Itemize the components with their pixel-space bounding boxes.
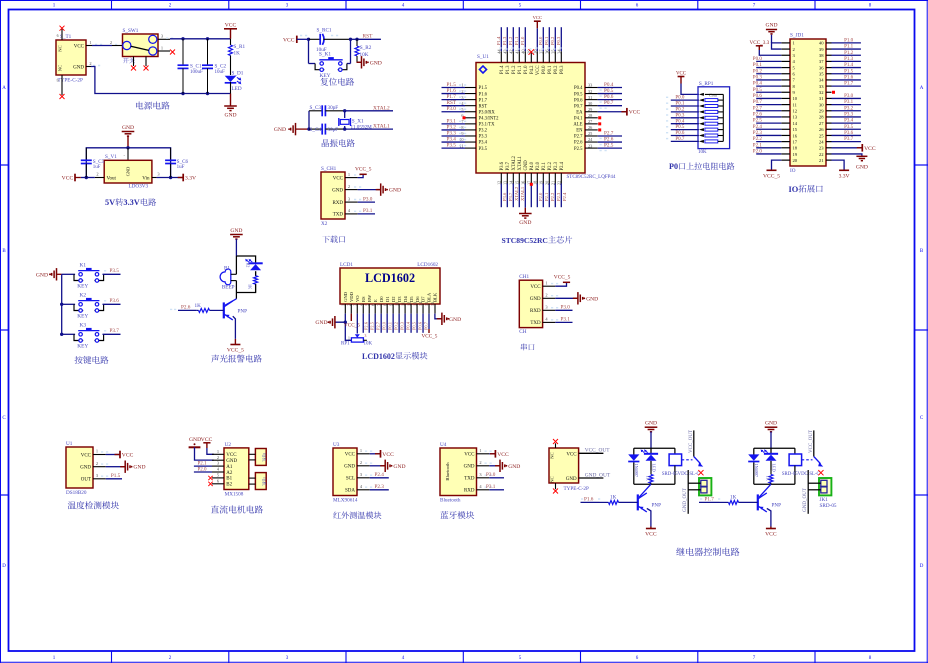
svg-text:KEY: KEY bbox=[319, 73, 330, 79]
svg-text:P1.1: P1.1 bbox=[518, 65, 523, 74]
svg-text:38: 38 bbox=[819, 53, 824, 58]
svg-text:VCC: VCC bbox=[382, 452, 394, 458]
svg-text:X2: X2 bbox=[321, 221, 328, 227]
svg-text:2: 2 bbox=[360, 460, 362, 465]
svg-text:33: 33 bbox=[588, 83, 592, 88]
svg-text:P2.1: P2.1 bbox=[753, 143, 763, 148]
JD1 right pin 29 bbox=[826, 110, 832, 112]
svg-text:P2.7: P2.7 bbox=[753, 106, 763, 111]
svg-text:1: 1 bbox=[348, 172, 350, 177]
svg-text:IO: IO bbox=[790, 168, 796, 174]
svg-text:P2.3: P2.3 bbox=[375, 484, 385, 490]
svg-text:VCC: VCC bbox=[225, 23, 237, 29]
connector CH1 serial port bbox=[519, 280, 542, 327]
svg-text:2: 2 bbox=[346, 304, 351, 306]
svg-text:6: 6 bbox=[57, 34, 59, 38]
svg-text:1: 1 bbox=[96, 449, 98, 454]
svg-text:SCL: SCL bbox=[346, 477, 355, 482]
svg-text:PNP: PNP bbox=[652, 503, 662, 509]
U4 VCC bbox=[489, 453, 495, 455]
svg-text:P0.3: P0.3 bbox=[675, 113, 685, 118]
svg-text:VCC_5: VCC_5 bbox=[227, 348, 244, 354]
relay indicator LED bbox=[650, 448, 652, 454]
svg-text:GND_OUT: GND_OUT bbox=[585, 472, 611, 478]
VCC power symbol bbox=[230, 29, 232, 39]
svg-text:10K: 10K bbox=[698, 150, 707, 155]
svg-text:8: 8 bbox=[382, 304, 387, 306]
svg-text:P1.0: P1.0 bbox=[524, 65, 529, 74]
svg-text:P1.5: P1.5 bbox=[844, 69, 854, 74]
svg-text:P1.0: P1.0 bbox=[844, 39, 854, 44]
serial VCC to VCC_5 bbox=[555, 282, 566, 286]
svg-text:P3.7: P3.7 bbox=[506, 161, 511, 170]
svg-text:27: 27 bbox=[819, 121, 824, 126]
svg-text:STC89C52RC_LQFP44: STC89C52RC_LQFP44 bbox=[567, 175, 616, 180]
relay loop rails bbox=[634, 447, 675, 449]
GND power symbol below LED bbox=[230, 94, 232, 107]
svg-text:SRD-05: SRD-05 bbox=[820, 503, 837, 509]
connector S_CH1 X2 download port bbox=[321, 172, 345, 219]
JD1 pin 21 to 3.3V bbox=[832, 160, 845, 170]
svg-text:GND: GND bbox=[530, 297, 541, 302]
svg-text:SRD-05VDC-SL-C: SRD-05VDC-SL-C bbox=[782, 472, 820, 477]
GND sideways at reset bbox=[357, 61, 362, 63]
flyback diode 1N4007 bbox=[628, 454, 639, 460]
svg-text:2: 2 bbox=[217, 455, 219, 460]
svg-text:9: 9 bbox=[57, 79, 59, 83]
svg-text:10: 10 bbox=[394, 302, 399, 306]
svg-text:30pF: 30pF bbox=[328, 127, 339, 133]
svg-text:VCC: VCC bbox=[533, 15, 542, 20]
svg-text:P1.4: P1.4 bbox=[500, 65, 505, 74]
svg-text:EA: EA bbox=[576, 110, 583, 115]
svg-text:A2: A2 bbox=[226, 471, 233, 476]
buzzer B1 BEEP bbox=[220, 269, 231, 285]
svg-text:P3.0: P3.0 bbox=[844, 94, 854, 99]
svg-text:P1.3: P1.3 bbox=[506, 65, 511, 74]
svg-text:TXD: TXD bbox=[530, 321, 541, 326]
caption button circuit bbox=[75, 356, 109, 364]
svg-text:GND: GND bbox=[856, 165, 868, 171]
svg-text:31: 31 bbox=[588, 95, 592, 100]
svg-text:1: 1 bbox=[161, 45, 163, 50]
switch bottom pins no-connect bbox=[133, 57, 135, 67]
U1 DS18B20 bbox=[66, 447, 93, 488]
svg-text:11: 11 bbox=[793, 102, 798, 107]
svg-text:S_C6: S_C6 bbox=[177, 159, 189, 165]
svg-text:GND: GND bbox=[389, 188, 401, 194]
switch S_SW1 bbox=[123, 34, 159, 57]
svg-text:P3.7: P3.7 bbox=[508, 192, 513, 201]
svg-text:A: A bbox=[2, 86, 6, 91]
svg-text:S_C1: S_C1 bbox=[190, 64, 202, 70]
RP1 resistor row 5 P0.3 bbox=[671, 117, 699, 119]
svg-text:VCC_5: VCC_5 bbox=[763, 173, 780, 179]
U3 SDA to P2.3 bbox=[370, 489, 389, 491]
JD1 pins 1,2 to GND bbox=[772, 43, 782, 49]
alarm LED bbox=[249, 262, 263, 264]
svg-text:P3.0: P3.0 bbox=[447, 106, 457, 112]
caption serial port bbox=[521, 343, 535, 350]
relay emitter to VCC bbox=[767, 508, 771, 526]
svg-text:17: 17 bbox=[793, 139, 798, 144]
svg-text:P0.7: P0.7 bbox=[423, 321, 428, 330]
svg-text:VCC: VCC bbox=[345, 453, 356, 458]
svg-text:BLK: BLK bbox=[433, 292, 438, 302]
svg-text:P1.6: P1.6 bbox=[479, 92, 488, 97]
svg-text:3.3V: 3.3V bbox=[185, 176, 196, 182]
svg-text:B1: B1 bbox=[226, 477, 232, 482]
relay driver GND power bbox=[765, 426, 778, 428]
JD1 right pin 25 bbox=[826, 134, 832, 136]
svg-text:VCC: VCC bbox=[226, 453, 237, 458]
3.3V output right bbox=[152, 177, 157, 179]
svg-text:KEY: KEY bbox=[77, 284, 88, 290]
svg-text:P1.5: P1.5 bbox=[479, 86, 488, 91]
svg-text:10uF: 10uF bbox=[215, 70, 226, 75]
svg-text:P1.7: P1.7 bbox=[479, 98, 488, 103]
svg-text:U1: U1 bbox=[66, 441, 73, 447]
alarm loop wiring bbox=[236, 256, 255, 263]
JD1 right pin 34 bbox=[826, 79, 832, 81]
svg-text:TYPE-C-2P: TYPE-C-2P bbox=[58, 78, 83, 84]
svg-text:P2.5: P2.5 bbox=[753, 119, 763, 124]
svg-text:15: 15 bbox=[424, 302, 429, 306]
svg-text:GND: GND bbox=[189, 437, 201, 443]
svg-text:GND_OUT: GND_OUT bbox=[683, 488, 688, 512]
svg-text:S_RP1: S_RP1 bbox=[699, 81, 714, 87]
resistor S_R1 1K bbox=[230, 39, 232, 45]
svg-text:S_R2: S_R2 bbox=[360, 45, 372, 51]
svg-text:D: D bbox=[920, 564, 924, 569]
svg-text:P0.7: P0.7 bbox=[574, 104, 583, 109]
caption DC motor circuit bbox=[211, 505, 263, 513]
svg-text:2: 2 bbox=[348, 184, 350, 189]
svg-text:P3.7: P3.7 bbox=[844, 137, 854, 142]
svg-text:NC: NC bbox=[550, 476, 555, 482]
caption infrared module bbox=[333, 512, 381, 519]
U1 OUT to P1.5 bbox=[106, 478, 122, 480]
svg-text:P1.2: P1.2 bbox=[508, 36, 513, 45]
svg-text:P0.5: P0.5 bbox=[411, 321, 416, 330]
svg-text:LCD1602: LCD1602 bbox=[365, 271, 415, 285]
svg-text:K2: K2 bbox=[80, 293, 87, 299]
svg-text:37: 37 bbox=[819, 59, 824, 64]
svg-text:VCC: VCC bbox=[629, 110, 641, 116]
JD1 right pin 32 bbox=[826, 91, 832, 93]
LCD BLA pin15 to VCC_5 bbox=[428, 314, 430, 330]
svg-text:P2.1: P2.1 bbox=[542, 161, 547, 170]
connector S_T1 TYPE-C-2P bbox=[56, 40, 86, 75]
JD1 right pin 36 bbox=[826, 67, 832, 69]
GND_OUT wire bbox=[579, 477, 604, 479]
capacitor S_C2 10uF bbox=[206, 37, 209, 40]
svg-text:RST: RST bbox=[363, 34, 374, 40]
svg-text:P0.0: P0.0 bbox=[753, 57, 763, 62]
svg-text:1K: 1K bbox=[730, 494, 737, 500]
JD1 left pin 17 bbox=[781, 141, 790, 143]
svg-text:GND: GND bbox=[226, 459, 237, 464]
svg-text:P4.0: P4.0 bbox=[530, 161, 535, 170]
svg-text:K3: K3 bbox=[80, 323, 87, 329]
svg-text:P0.3: P0.3 bbox=[753, 76, 763, 81]
JD1 left pin 15 bbox=[781, 128, 790, 130]
svg-text:GND: GND bbox=[315, 320, 327, 326]
JD1 left pin 4 bbox=[781, 60, 790, 62]
svg-text:39: 39 bbox=[819, 47, 824, 52]
svg-text:5: 5 bbox=[364, 304, 369, 306]
svg-text:S_X1: S_X1 bbox=[352, 119, 364, 125]
S_T1 top pin with no-connect bbox=[61, 29, 63, 40]
svg-text:GND: GND bbox=[126, 167, 131, 177]
svg-text:29: 29 bbox=[819, 109, 824, 114]
relay LED resistor 1K bbox=[770, 471, 772, 475]
svg-text:P0: P0 bbox=[669, 162, 678, 171]
RP1 resistor row 6 P0.4 bbox=[671, 123, 699, 125]
svg-text:S_D1: S_D1 bbox=[232, 71, 244, 77]
LCD1 LCD1602 display bbox=[340, 268, 440, 304]
svg-text:P0.1: P0.1 bbox=[675, 102, 685, 107]
LCD BLK pin16 to sideways GND bbox=[435, 314, 442, 319]
svg-text:U2: U2 bbox=[225, 442, 232, 448]
svg-text:D7: D7 bbox=[421, 296, 426, 302]
JD1 left pin 3 bbox=[781, 54, 790, 56]
svg-text:P0.1: P0.1 bbox=[753, 63, 763, 68]
svg-text:2: 2 bbox=[110, 40, 112, 45]
svg-text:28: 28 bbox=[819, 115, 824, 120]
svg-text:GND: GND bbox=[765, 23, 777, 29]
relay driver GND power bbox=[645, 426, 658, 428]
svg-text:MLX90614: MLX90614 bbox=[333, 497, 358, 503]
svg-text:S_U1: S_U1 bbox=[477, 54, 489, 60]
svg-text:P2.5: P2.5 bbox=[604, 143, 614, 149]
JD1 left pin 1 bbox=[781, 42, 790, 44]
svg-text:P2.3: P2.3 bbox=[554, 161, 559, 170]
RP1 resistor row 3 P0.1 bbox=[671, 105, 699, 107]
svg-text:P2.3: P2.3 bbox=[556, 192, 561, 201]
relay base resistor 1K bbox=[720, 501, 729, 503]
JD1 right pin 38 bbox=[826, 54, 832, 56]
svg-text:1: 1 bbox=[89, 40, 91, 45]
alarm resistor bbox=[255, 271, 257, 275]
svg-text:PNP: PNP bbox=[238, 308, 248, 314]
svg-text:P1.1: P1.1 bbox=[514, 36, 519, 45]
JD1 left pin 2 bbox=[781, 48, 790, 50]
svg-text:VO: VO bbox=[355, 295, 360, 302]
svg-text:2: 2 bbox=[89, 61, 91, 66]
svg-text:P0.0: P0.0 bbox=[675, 96, 685, 101]
LCD VO pin3 to potentiometer RP1 bbox=[356, 314, 358, 334]
relay GND_OUT wiring bbox=[688, 482, 701, 484]
JD1 left pin 18 bbox=[781, 147, 790, 149]
svg-text:P2.0: P2.0 bbox=[198, 467, 208, 472]
svg-text:S_C3: S_C3 bbox=[310, 105, 322, 111]
svg-text:30: 30 bbox=[819, 102, 824, 107]
header S_JD1 40pin bbox=[790, 39, 826, 166]
svg-text:2: 2 bbox=[96, 172, 98, 177]
XTAL2 net wire bbox=[345, 110, 393, 112]
svg-text:P2.1: P2.1 bbox=[198, 461, 208, 466]
capacitor S_C4 30pF bbox=[309, 128, 322, 130]
serial GND sideways bbox=[555, 297, 574, 299]
svg-text:P0.7: P0.7 bbox=[604, 100, 614, 106]
svg-text:NC: NC bbox=[58, 45, 63, 51]
svg-text:P3.4: P3.4 bbox=[844, 119, 854, 124]
svg-text:GND: GND bbox=[464, 465, 475, 470]
svg-text:P3.1: P3.1 bbox=[844, 100, 854, 105]
svg-text:11: 11 bbox=[400, 302, 405, 306]
LDO U S_V1 LDO3V3 bbox=[127, 148, 129, 161]
caption IO expansion bbox=[789, 185, 823, 194]
svg-text:K1: K1 bbox=[80, 263, 87, 269]
svg-text:D2: D2 bbox=[391, 296, 396, 302]
svg-text:R2: R2 bbox=[245, 263, 250, 268]
svg-text:RXD: RXD bbox=[332, 201, 343, 206]
svg-text:GND: GND bbox=[343, 291, 348, 302]
svg-text:P2.6: P2.6 bbox=[364, 321, 369, 330]
TYPE-C bottom pin no-connect bbox=[555, 483, 557, 489]
GND power above LDO bbox=[122, 131, 135, 133]
svg-text:3: 3 bbox=[365, 334, 367, 338]
caption bluetooth module bbox=[440, 511, 474, 519]
LED S_D1 bbox=[225, 76, 237, 82]
svg-text:P2.6: P2.6 bbox=[574, 141, 583, 146]
svg-text:RS: RS bbox=[361, 296, 366, 302]
svg-text:VCC: VCC bbox=[864, 146, 876, 152]
relay indicator LED bbox=[770, 448, 772, 454]
svg-text:D1: D1 bbox=[385, 296, 390, 302]
JD1 pin 23 to VCC bbox=[832, 147, 863, 149]
RP1 resistor row 7 P0.5 bbox=[671, 129, 699, 131]
svg-text:GND: GND bbox=[274, 127, 286, 133]
svg-text:P2.0: P2.0 bbox=[536, 161, 541, 170]
svg-text:2: 2 bbox=[545, 293, 547, 298]
JD1 left pin 16 bbox=[781, 134, 790, 136]
svg-text:P2.4: P2.4 bbox=[562, 192, 567, 201]
svg-text:LED: LED bbox=[232, 86, 242, 92]
wire VCC pin1 to switch bbox=[86, 45, 92, 47]
svg-text:P3.3: P3.3 bbox=[844, 113, 854, 118]
svg-text:GND: GND bbox=[133, 465, 145, 471]
svg-text:P0.3: P0.3 bbox=[399, 321, 404, 330]
svg-text:XTAL2: XTAL2 bbox=[514, 186, 519, 201]
svg-text:GND: GND bbox=[566, 477, 577, 482]
svg-text:1: 1 bbox=[217, 449, 219, 454]
svg-text:VCC: VCC bbox=[333, 176, 344, 181]
svg-text:VCC: VCC bbox=[536, 66, 541, 76]
svg-text:GND_OUT: GND_OUT bbox=[803, 488, 808, 512]
svg-text:IO: IO bbox=[789, 185, 799, 194]
JD1 right pin 21 bbox=[826, 159, 832, 161]
svg-text:VCC_OUT: VCC_OUT bbox=[809, 430, 814, 453]
U2 B1 B2 no connect bbox=[208, 476, 212, 480]
svg-text:P3.5: P3.5 bbox=[844, 125, 854, 130]
svg-text:P1.6: P1.6 bbox=[584, 497, 594, 503]
caption temperature module bbox=[68, 501, 119, 509]
U3 VCC bbox=[370, 453, 381, 455]
svg-text:RST: RST bbox=[479, 104, 488, 109]
svg-text:EN: EN bbox=[576, 129, 583, 134]
caption STC89C52RC main chip bbox=[502, 236, 573, 245]
svg-text:32: 32 bbox=[588, 89, 592, 94]
svg-text:GND: GND bbox=[36, 272, 48, 278]
svg-text:VCC: VCC bbox=[62, 176, 74, 182]
svg-text:SDA: SDA bbox=[345, 489, 355, 494]
svg-text:MX1508: MX1508 bbox=[225, 491, 244, 497]
svg-text:20: 20 bbox=[793, 158, 798, 163]
capacitor S_RC1 10uF bbox=[307, 38, 310, 41]
flyback diode 1N4007 bbox=[748, 454, 759, 460]
svg-text:VCC: VCC bbox=[497, 452, 509, 458]
svg-text:P3.1: P3.1 bbox=[486, 484, 496, 490]
svg-text:GND: GND bbox=[370, 60, 382, 66]
svg-text:19: 19 bbox=[793, 152, 798, 157]
svg-text:32: 32 bbox=[819, 90, 824, 95]
svg-text:S_SW1: S_SW1 bbox=[123, 28, 139, 34]
svg-text:GND: GND bbox=[765, 421, 777, 427]
svg-text:VCC: VCC bbox=[81, 453, 92, 458]
net label RST bbox=[357, 38, 381, 40]
svg-text:P1.3: P1.3 bbox=[844, 57, 854, 62]
svg-text:2: 2 bbox=[479, 460, 481, 465]
relay PNP transistor bbox=[759, 484, 771, 497]
svg-text:VCC: VCC bbox=[122, 453, 134, 459]
svg-text:GND: GND bbox=[524, 160, 529, 171]
svg-text:VCC_5: VCC_5 bbox=[554, 275, 571, 281]
svg-text:P3.0: P3.0 bbox=[561, 305, 571, 311]
JD1 left pin 8 bbox=[781, 85, 790, 87]
svg-text:P2.2: P2.2 bbox=[550, 192, 555, 201]
svg-text:Vout: Vout bbox=[107, 176, 117, 181]
svg-text:NC: NC bbox=[550, 452, 555, 458]
svg-text:VCC_OUT: VCC_OUT bbox=[689, 430, 694, 453]
svg-text:P1.4: P1.4 bbox=[844, 63, 854, 68]
svg-text:33: 33 bbox=[819, 84, 824, 89]
svg-text:1K: 1K bbox=[765, 476, 770, 481]
U2 A1 A2 nets bbox=[194, 465, 212, 467]
svg-text:Bluetooth: Bluetooth bbox=[445, 462, 450, 481]
svg-text:GND: GND bbox=[122, 125, 134, 131]
key K1 bbox=[62, 273, 75, 275]
svg-text:P2.6: P2.6 bbox=[753, 113, 763, 118]
svg-text:P2.4: P2.4 bbox=[560, 161, 565, 170]
svg-text:VCC: VCC bbox=[530, 285, 541, 290]
svg-text:P0.3: P0.3 bbox=[560, 65, 565, 74]
svg-text:OUT: OUT bbox=[81, 478, 91, 483]
svg-text:VCC_OUT: VCC_OUT bbox=[585, 448, 611, 454]
JD1 right pin 39 bbox=[826, 48, 832, 50]
svg-text:VCC: VCC bbox=[676, 71, 686, 76]
U3 MLX90614 bbox=[333, 448, 357, 496]
svg-text:P1.2: P1.2 bbox=[844, 51, 854, 56]
svg-text:15: 15 bbox=[793, 127, 798, 132]
svg-text:10K: 10K bbox=[364, 342, 373, 347]
svg-text:1K: 1K bbox=[195, 303, 202, 309]
svg-text:P2.6: P2.6 bbox=[181, 304, 191, 310]
download RXD to P3.0 bbox=[358, 201, 375, 203]
svg-text:VCC: VCC bbox=[645, 532, 657, 538]
capacitor S_C1 100uF bbox=[181, 37, 184, 40]
svg-text:30pF: 30pF bbox=[328, 105, 339, 111]
svg-text:23: 23 bbox=[819, 146, 824, 151]
svg-text:P1.1: P1.1 bbox=[844, 45, 854, 50]
motor connector 2 bbox=[255, 473, 266, 490]
svg-text:P3.5: P3.5 bbox=[479, 147, 488, 152]
svg-text:22: 22 bbox=[819, 152, 824, 157]
svg-text:P0.2: P0.2 bbox=[753, 69, 763, 74]
svg-text:P0.3: P0.3 bbox=[556, 36, 561, 45]
svg-text:GND: GND bbox=[80, 466, 91, 471]
